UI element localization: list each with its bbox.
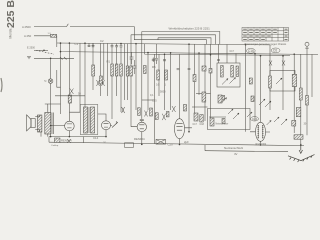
wire speaker links (35, 104, 60, 137)
svg-text:5000: 5000 (160, 91, 166, 94)
wire inner shield line (145, 44, 291, 56)
resistor R3 (120, 64, 123, 76)
resistor R16 (306, 96, 309, 106)
capacitor C5 grid cap (115, 44, 118, 47)
capacitor C4 grid cap (111, 44, 114, 47)
wire vertical v136 (135, 44, 137, 110)
resistor R15 (166, 112, 169, 117)
capacitor C27 bowtie (282, 61, 285, 66)
wire screen bus (61, 43, 319, 54)
wire vertical v85 (84, 43, 86, 107)
capacitor C29 bowtie (70, 89, 74, 95)
resistor R19 (193, 75, 196, 82)
wire vertical v148 (147, 53, 149, 110)
wire vertical v103 (103, 43, 105, 80)
svg-text:C18: C18 (200, 123, 205, 126)
trimmer arrow t5b (265, 101, 271, 107)
svg-text:225 B: 225 B (5, 0, 17, 28)
coil L7b (200, 115, 203, 122)
coil L13 switch coil (296, 108, 301, 117)
resistor R1 (111, 64, 114, 76)
svg-text:C21: C21 (252, 117, 258, 121)
wire vertical v194 (194, 44, 196, 113)
switch S2 (249, 78, 252, 84)
node E antenna line 2 (34, 36, 57, 43)
capacitor C28 bowtie (172, 106, 176, 112)
capacitor C18b (222, 119, 225, 124)
coil L9 (218, 95, 222, 103)
wire vertical v159 (158, 54, 160, 96)
svg-text:C16: C16 (248, 49, 254, 53)
node A antenna line (34, 24, 207, 45)
resistor R8 (231, 66, 234, 78)
coil L1 antenna coil (51, 34, 57, 37)
trimmer arrow t1 (112, 122, 118, 128)
box IF shield (80, 105, 98, 135)
triode T3 REN904 audion (137, 122, 146, 131)
trimmer arrow t2 (222, 79, 228, 85)
resistor R4 (100, 76, 103, 84)
coil L12 (68, 95, 71, 103)
capacitor C18a (222, 96, 225, 101)
svg-text:C17: C17 (193, 123, 198, 126)
wire seg y93 (196, 93, 211, 95)
box power switch (208, 109, 251, 130)
wire vertical v60 (60, 52, 62, 114)
wire vertical v107 (107, 43, 109, 96)
wire vertical v245 (245, 45, 247, 132)
capacitor C22 on cathode (55, 138, 61, 143)
capacitor C24 block (125, 143, 134, 148)
resistor R10 (269, 76, 272, 88)
coil L8 (210, 118, 214, 126)
wire vertical v227 (226, 44, 228, 63)
wire vertical v100 (99, 43, 101, 96)
wire vertical v124 (124, 44, 126, 100)
svg-text:REN904: REN904 (61, 138, 72, 142)
resistor R14 (155, 113, 158, 120)
resistor R12 (138, 108, 141, 116)
triode T1 REN904 (65, 121, 75, 131)
svg-text:A 250: A 250 (24, 34, 32, 38)
trimmer arrow t5 (259, 99, 265, 105)
svg-text:0,1: 0,1 (150, 94, 154, 97)
lamp dial light top right (305, 42, 309, 54)
capacitor C3 grid cap (92, 43, 95, 47)
svg-text:Cr: Cr (104, 141, 107, 144)
tetrode T2 RENS1214 (102, 121, 111, 130)
capacitor C13 bowtie (122, 107, 125, 113)
capacitor C8 (130, 52, 134, 64)
capacitor C23 bowtie (67, 139, 71, 143)
pentode T4 RES964 output (175, 119, 185, 139)
resistor R6 (165, 70, 168, 80)
trimmer arrow t8b (274, 117, 279, 122)
coil L5 choke (292, 74, 296, 86)
capacitor C2 grid cap (88, 43, 91, 46)
svg-text:Mende,: Mende, (9, 27, 13, 38)
lamp Sp jack (50, 58, 52, 79)
wire vertical v80 (79, 43, 81, 112)
svg-text:Netzschalter: Netzschalter (216, 123, 229, 126)
capacitor C32 bars (217, 59, 220, 60)
wire dashed link (36, 50, 54, 54)
wire vertical v170 (170, 53, 172, 110)
trimmer arrow t11 (228, 109, 233, 114)
transformer IF1 (84, 107, 88, 133)
wire link line a (142, 32, 220, 45)
wire vertical v283 (282, 56, 284, 110)
coil L11 (292, 121, 296, 127)
svg-text:C17: C17 (230, 50, 235, 53)
wire vertical v93 (92, 43, 94, 90)
svg-text:REN904: REN904 (134, 137, 145, 141)
resistor R13 (150, 108, 153, 116)
wire e-drop lower (57, 43, 61, 87)
wire earth input line (34, 57, 74, 60)
switch S1 (251, 96, 254, 102)
wire vertical v131 (130, 35, 132, 127)
wire seg y100 (142, 99, 155, 101)
capacitor C12 bowtie (162, 114, 165, 120)
svg-text:C1: C1 (75, 42, 79, 46)
resistor field coil (38, 115, 42, 132)
resistor R7 (221, 66, 224, 78)
wire pickup line (34, 49, 48, 51)
svg-text:RGN1064: RGN1064 (256, 143, 267, 146)
wire link line c (158, 38, 211, 45)
svg-text:4V: 4V (234, 152, 238, 156)
svg-text:E 2500: E 2500 (27, 47, 36, 50)
trimmer arrow t8 (281, 119, 287, 125)
svg-text:2µF: 2µF (184, 140, 189, 144)
capacitor C11 bowtie (102, 80, 105, 86)
capacitor C25 block (156, 140, 166, 145)
wire vertical v259 tube5 (260, 56, 262, 123)
wire vertical v121 (120, 47, 122, 112)
resistor R20 (184, 105, 187, 112)
ground input terminal (27, 56, 31, 58)
wire vertical v199 (198, 53, 200, 95)
wire vertical v205 (204, 44, 206, 150)
svg-text:A 2500: A 2500 (22, 25, 31, 29)
wire link line b (131, 35, 216, 45)
capacitor C9 bowtie (145, 111, 148, 117)
wire main top bus (57, 43, 270, 45)
trimmer arrow t6 (222, 98, 227, 104)
wire seg y107 (192, 106, 208, 108)
coil L7 (194, 113, 198, 121)
speaker LS (31, 119, 35, 128)
capacitor C31 bars (177, 69, 180, 70)
box ps block (270, 71, 295, 92)
svg-text:C20: C20 (168, 143, 174, 147)
trimmer arrow t10 (247, 112, 252, 117)
svg-text:R5: R5 (152, 65, 156, 69)
transformer TR output (45, 113, 51, 135)
svg-text:C6: C6 (273, 49, 277, 53)
wire vertical v156 cap (155, 44, 158, 64)
trimmer arrow t9 (267, 121, 272, 126)
wire vertical v210 (210, 44, 212, 118)
wire vertical v69 tube1 anode (68, 43, 70, 112)
wire vertical v307 (306, 54, 308, 135)
wire vertical v218 (218, 44, 220, 63)
svg-text:Werkbildschaltplan 225 B 2251: Werkbildschaltplan 225 B 2251 (169, 27, 211, 31)
resistor R22 (130, 66, 133, 76)
capacitor C26 bowtie (269, 61, 272, 66)
svg-text:C14: C14 (93, 136, 99, 140)
label C21 (251, 117, 259, 121)
capacitor C5b grid cap (120, 44, 123, 47)
svg-text:C2: C2 (100, 39, 104, 43)
wire vertical v255 (254, 54, 256, 121)
title Mende 225 B (5, 0, 17, 39)
resistor R21 (92, 65, 95, 76)
table tube data chart (242, 28, 289, 42)
label C6 (271, 48, 280, 53)
capacitor C17a mark (152, 58, 155, 63)
wire bottom bus (49, 142, 304, 145)
wire vertical v294 (293, 54, 295, 133)
wire vertical v154 (154, 54, 156, 143)
svg-text:Feldsp.: Feldsp. (52, 145, 60, 147)
coil L6 osc (202, 92, 206, 102)
wire seg y117 (209, 116, 226, 118)
box filter block (217, 63, 240, 87)
resistor R5 (157, 70, 160, 80)
wire cathode bus left (49, 137, 106, 143)
wire vertical v270 (269, 45, 271, 110)
resistor R9 (236, 66, 238, 77)
rectifier T5 RGN1064 (256, 122, 266, 141)
wire vertical v127 (127, 44, 129, 100)
switch S4 (209, 69, 212, 74)
wire vertical v116 (116, 47, 118, 96)
svg-text:C15: C15 (152, 100, 157, 103)
wire vertical v164 (163, 54, 166, 110)
wire vertical v189 (188, 44, 191, 132)
capacitor C10 bowtie (97, 80, 100, 86)
wire vertical v180 tube4 anode (179, 54, 181, 118)
svg-text:R1: R1 (107, 60, 111, 64)
resistor R11 (299, 88, 302, 100)
ground symbol (288, 143, 315, 162)
wire seg y95 (55, 95, 85, 97)
label C16 (246, 48, 255, 53)
svg-text:Netzanschluß: Netzanschluß (224, 146, 243, 150)
capacitor C7 (133, 60, 137, 74)
trimmer arrow t3 (230, 78, 236, 84)
wire vertical v112 (111, 47, 113, 119)
resistor R2 (115, 64, 118, 76)
wire heater bus (205, 151, 288, 152)
trimmer arrow t7 (233, 113, 239, 119)
wire vertical v312 (311, 54, 313, 97)
svg-text:Spannungen gemessen gegen Chas: Spannungen gemessen gegen Chassis (245, 43, 288, 46)
capacitor C30 (144, 66, 147, 74)
resistor R3b (126, 66, 129, 76)
wire vertical v236 (235, 53, 237, 63)
switch S3 (202, 66, 206, 71)
wire vertical v142 (141, 32, 143, 119)
coil L10 heater winding (294, 135, 303, 139)
trimmer arrow t4 (276, 78, 282, 84)
wire vertical v300 (300, 54, 302, 143)
